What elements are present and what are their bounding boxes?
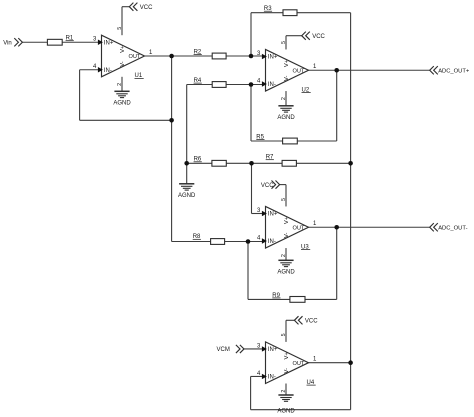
svg-text:IN+: IN+ [104,40,114,46]
svg-text:Vin: Vin [3,40,12,46]
power VCC U1 [129,3,153,11]
resistor R9 [272,293,305,303]
wire U3 output to ADC_OUT- [309,226,430,228]
svg-text:AGND: AGND [277,408,295,414]
svg-text:IN-: IN- [268,375,276,381]
svg-text:V+: V+ [284,216,290,224]
svg-text:ADC_OUT-: ADC_OUT- [438,226,467,232]
resistor R7 [266,155,297,167]
svg-text:2: 2 [117,83,123,86]
wire R3 left lead [251,12,283,14]
wire R4/R6 ground vertical [186,85,188,184]
op-amp U1 [98,35,145,77]
wire branch U1 out down to R8 [171,56,173,242]
wire VCM to U4 IN+ [244,348,266,350]
svg-text:AGND: AGND [113,101,131,107]
junction U1 out branch [169,54,174,59]
wire R6 to R7 junction [226,162,251,164]
svg-text:AGND: AGND [277,270,295,276]
op-amp U2 [262,49,309,91]
port VCM [217,345,245,353]
ground AGND U2 [277,106,295,121]
wire R5 left lead [251,140,283,142]
wire R9 left lead [248,298,290,300]
svg-text:V+: V+ [284,59,290,67]
junction R6 ground node [184,161,189,166]
wire R7 left lead [252,162,283,164]
wire U1 feedback down [79,70,81,121]
wire Vin to R1 [22,41,47,43]
wire junction down to U3 IN+ [251,163,253,213]
wire R9 up to U3 out [336,227,338,299]
svg-text:VCC: VCC [140,5,153,11]
svg-text:5: 5 [117,27,123,30]
wire R3 left vertical to U2 IN+ [250,13,252,56]
svg-text:OUT: OUT [292,225,304,231]
wire U1 V+ to VCC [121,7,123,36]
wire to U3 IN+ [252,213,266,215]
wire U4 feedback bottom [251,409,351,411]
port Vin [3,38,22,46]
junction U2 out node [334,68,339,73]
svg-text:2: 2 [281,254,287,257]
svg-text:V+: V+ [120,45,126,53]
svg-text:V-: V- [120,61,126,67]
svg-text:VCC: VCC [305,319,318,325]
wire U4 output to junction [309,362,351,364]
svg-text:V-: V- [284,75,290,81]
wire R2 to U2 IN+ [226,55,265,57]
port ADC_OUT- [430,223,468,231]
wire U2 IN- down to R5 [250,85,252,142]
svg-text:V-: V- [284,368,290,374]
resistor R1 [47,36,74,46]
wire U1 output to R2 [145,55,213,57]
resistor R5 [256,134,297,144]
wire AGND to R4 [187,84,213,86]
port ADC_OUT+ [430,66,470,74]
junction U3 IN- node [246,239,251,244]
svg-text:OUT: OUT [292,68,304,74]
svg-text:OUT: OUT [128,54,140,60]
wire U3 V- to AGND [285,248,287,260]
svg-text:IN+: IN+ [268,212,278,218]
wire R8 left lead [172,241,211,243]
junction U1 feedback tie [169,118,174,123]
wire R7 right lead [296,162,350,164]
power VCC U3 [261,181,280,190]
junction R6-R7 node [249,161,254,166]
svg-text:VCM: VCM [217,347,230,353]
wire U2 V+ to VCC [285,36,287,50]
svg-text:V-: V- [284,232,290,238]
resistor R6 [194,157,227,167]
resistor R8 [193,234,225,244]
svg-text:V+: V+ [284,352,290,360]
op-amp U4 [262,342,309,384]
wire R5 right lead [297,140,336,142]
junction U3 out node [334,225,339,230]
wire R3 right lead [297,12,351,14]
wire U2 output to ADC_OUT+ [309,69,430,71]
wire U3 IN- down to R9 [247,242,249,300]
power VCC U4 [294,316,318,324]
svg-text:IN-: IN- [268,239,276,245]
svg-text:5: 5 [281,333,287,336]
op-amp U3 [262,206,309,248]
power VCC U2 [302,32,326,40]
wire R6 left lead [187,162,212,164]
svg-text:2: 2 [281,97,287,100]
svg-text:OUT: OUT [292,361,304,367]
ground AGND U1 [113,91,131,106]
svg-text:VCC: VCC [312,34,325,40]
svg-text:IN+: IN+ [268,55,278,61]
wire U4 feedback up to out [350,363,352,410]
wire U1 feedback to branch [80,119,172,121]
svg-text:2: 2 [281,390,287,393]
ground AGND U4 [277,395,295,414]
wire VCC to U3 V+ [280,184,286,186]
svg-text:IN-: IN- [104,68,112,74]
ground AGND R6 [178,184,196,199]
junction U2 IN+ node [249,54,254,59]
svg-text:5: 5 [281,41,287,44]
wire U2 V- to AGND [285,91,287,106]
ground AGND U3 [277,260,295,275]
wire U4 IN- feedback left [251,375,266,377]
svg-text:IN-: IN- [268,82,276,88]
svg-text:ADC_OUT+: ADC_OUT+ [438,69,470,75]
svg-text:AGND: AGND [178,193,196,199]
svg-text:5: 5 [281,198,287,201]
svg-text:AGND: AGND [277,115,295,121]
wire R5 up to U2 out [336,70,338,141]
wire U1 IN- feedback left [80,69,102,71]
resistor R4 [194,78,226,87]
resistor R3 [264,6,297,16]
svg-text:IN+: IN+ [268,347,278,353]
wire R4 to U2 IN- [226,84,265,86]
resistor R2 [194,49,226,58]
wire R8 to U3 IN- [225,241,266,243]
wire U4 V- to AGND [285,384,287,395]
wire U4 feedback down [250,376,252,409]
wire U1 V- to AGND [121,77,123,92]
wire U4 V+ to VCC [285,320,287,342]
wire right bus vertical R3 to U4 out [350,13,352,363]
wire R9 right lead [305,298,337,300]
junction U4 out node [348,360,353,365]
wire R1 to U1 IN+ [62,41,101,43]
junction U2 IN- node [249,82,254,87]
junction R7 right bus node [348,161,353,166]
